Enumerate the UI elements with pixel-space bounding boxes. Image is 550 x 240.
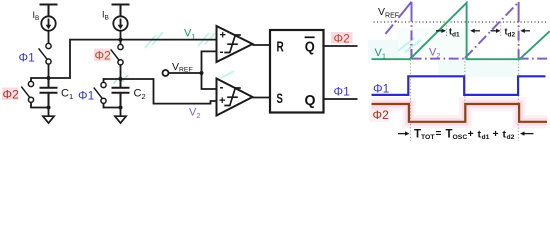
annotation td1 (436, 29, 480, 33)
annotation td2 (491, 29, 531, 33)
svg-text:d1: d1 (482, 134, 490, 141)
ground 2 (120, 108, 122, 117)
wire to switch phi1 cell2 (104, 79, 121, 82)
svg-text:Φ2: Φ2 (373, 108, 390, 122)
SR latch U3 (270, 30, 324, 113)
junction on V1 wire (119, 38, 123, 42)
node V2 junction (119, 77, 123, 81)
crossing marker V2 dotted (500, 22, 502, 37)
svg-text:OSC: OSC (453, 134, 468, 141)
wire comp2 to S (253, 97, 271, 99)
switch phi2 cell1 (21, 81, 33, 102)
svg-text:Φ1: Φ1 (19, 51, 36, 65)
wire (120, 65, 122, 79)
svg-text:Q: Q (305, 39, 315, 55)
svg-text:TOT: TOT (421, 134, 435, 141)
waveform V2 purple dashed (386, 2, 549, 59)
svg-text:+: + (468, 128, 474, 140)
svg-text:Φ1: Φ1 (373, 82, 390, 96)
waveform phi1 blue (372, 76, 546, 95)
VREF dotted level line (374, 21, 549, 23)
label phi2 out (331, 32, 353, 44)
wire (48, 64, 50, 78)
capacitor C2 (112, 79, 130, 108)
svg-text:T: T (414, 128, 421, 140)
capacitor C1 (40, 78, 58, 108)
svg-text:+: + (220, 30, 226, 42)
junction VREF (200, 71, 204, 75)
label phi2 cell2 (94, 49, 111, 62)
supply bar 1 (40, 5, 58, 17)
ground junction 2 (119, 106, 123, 110)
wire Q out (324, 98, 358, 100)
wire VREF (169, 72, 202, 74)
node V1 junction (47, 76, 51, 80)
svg-text:Φ2: Φ2 (3, 88, 20, 102)
hysteresis symbol U2 (224, 88, 241, 106)
time marker t3 dotted (517, 22, 519, 141)
waveform phi2 brown (372, 104, 548, 122)
svg-text:-: - (220, 80, 224, 94)
wire (31, 102, 49, 107)
svg-text:+: + (493, 128, 499, 140)
time marker t2 dotted (464, 58, 466, 122)
wire (120, 31, 122, 45)
wire comp1 to R (253, 44, 271, 46)
svg-text:=: = (436, 128, 442, 139)
ground junction 1 (47, 106, 51, 110)
supply bar 2 (112, 5, 130, 17)
svg-text:Φ1: Φ1 (78, 89, 95, 103)
wire to switch phi2 cell1 (31, 78, 49, 81)
label phi2 cell1 (2, 88, 19, 101)
current source IB1 (41, 16, 55, 30)
wire (104, 103, 121, 107)
svg-text:R: R (277, 39, 284, 56)
svg-text:T: T (446, 128, 453, 140)
current source IB2 (113, 16, 127, 30)
node VREF terminal (163, 70, 169, 76)
wire Qbar out (324, 45, 358, 47)
svg-text:Φ2: Φ2 (334, 32, 351, 46)
time marker t1 dotted (409, 44, 411, 141)
formula text (414, 128, 515, 141)
svg-text:Φ2: Φ2 (95, 49, 112, 63)
wire VREF to comp1 minus (202, 51, 217, 73)
op-amp comparator U1 (217, 26, 253, 62)
svg-text:-: - (220, 45, 224, 59)
ground 1 (48, 108, 50, 117)
svg-text:d2: d2 (507, 134, 515, 141)
switch phi1 cell1 (39, 43, 52, 64)
switch phi2 cell2 (111, 44, 124, 65)
wire V1 net up and right (49, 40, 217, 78)
wire V2 net (121, 79, 217, 104)
svg-text:Q: Q (305, 92, 316, 109)
wire (48, 31, 50, 44)
switch phi1 cell2 (94, 82, 106, 103)
svg-text:S: S (277, 90, 283, 106)
waveform V1 green (372, 3, 550, 59)
wire VREF to comp2 minus (202, 73, 217, 89)
svg-text:Φ1: Φ1 (334, 85, 351, 99)
crossing marker V1 dotted (445, 22, 447, 37)
formula arrows (398, 131, 534, 135)
op-amp comparator U2 (217, 79, 253, 116)
hysteresis symbol U1 (224, 35, 241, 53)
